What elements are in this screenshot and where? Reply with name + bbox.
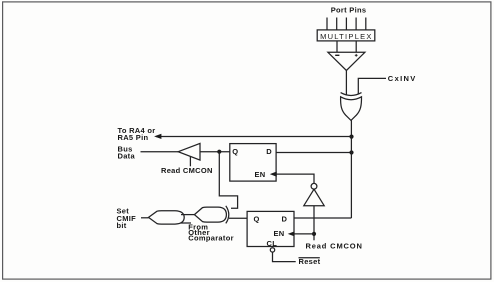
wire main vertical (350, 137, 352, 218)
wire mux output left (336, 42, 338, 53)
tri-state buffer U2 (178, 143, 200, 160)
svg-text:D: D (282, 215, 288, 224)
wire port pin 1 (326, 18, 328, 31)
svg-text:EN: EN (255, 170, 266, 179)
wire G2 to G3 (181, 214, 194, 216)
svg-text:Comparator: Comparator (188, 234, 234, 243)
wire to RA4/RA5 pin (156, 136, 352, 138)
wire bus data (141, 151, 179, 153)
wire U5 D (294, 217, 351, 219)
node J3 (349, 150, 353, 154)
xor G2 input arc (226, 206, 229, 224)
svg-text:bit: bit (117, 221, 127, 230)
wire xor output (350, 120, 352, 136)
wire U3 EN (276, 174, 314, 183)
svg-text:Read CMCON: Read CMCON (306, 241, 363, 250)
comparator C1 plus input mark (355, 54, 358, 57)
wire U3 D (276, 152, 351, 154)
svg-text:RA5 Pin: RA5 Pin (118, 133, 149, 142)
xor gate G1 (output inversion) (341, 93, 362, 96)
wire comparator output (345, 71, 347, 95)
label Reset with overline (299, 257, 320, 259)
multiplexer MULTIPLEX (317, 30, 375, 41)
wire mux output right (355, 42, 357, 53)
wire port pin 3 (345, 18, 347, 31)
wire CxINV (358, 78, 386, 94)
xor gate G2 (194, 207, 226, 222)
svg-text:Q: Q (254, 215, 260, 224)
svg-text:Read CMCON: Read CMCON (161, 166, 213, 175)
latch U5 (247, 211, 294, 246)
wire port pin 4 (355, 18, 357, 31)
wire U5 Q (229, 217, 247, 219)
wire down to xor G2 (219, 152, 237, 209)
svg-text:Data: Data (118, 151, 136, 160)
svg-text:EN: EN (274, 229, 285, 238)
arrowhead U5 EN (288, 231, 295, 236)
comparator C1 minus input mark (335, 54, 339, 56)
or gate G3 (149, 211, 185, 224)
svg-text:D: D (266, 147, 272, 156)
arrowhead to pin (154, 134, 161, 139)
svg-text:Reset: Reset (299, 257, 321, 266)
wire set cmif (141, 217, 149, 219)
svg-text:CL: CL (267, 239, 278, 248)
wire reset (273, 252, 296, 262)
svg-text:Port Pins: Port Pins (331, 6, 367, 15)
wire from other comparator (181, 222, 192, 224)
svg-text:Q: Q (232, 147, 238, 156)
latch U3 (230, 144, 276, 182)
bubble U5 CL (270, 248, 274, 252)
node J4 (312, 232, 316, 236)
wire buffer output (200, 151, 230, 153)
inverter U4 (311, 183, 317, 189)
wire port pin 2 (336, 18, 338, 31)
node J1 (349, 135, 353, 139)
svg-text:MULTIPLEX: MULTIPLEX (320, 32, 373, 41)
comparator C1 (328, 52, 365, 70)
arrowhead U3 EN (270, 172, 277, 177)
wire buffer enable (189, 157, 191, 167)
node J2 (217, 150, 221, 154)
wire inverter to EN line (313, 206, 315, 241)
wire port pin 5 (365, 18, 367, 31)
wire U5 EN (294, 233, 314, 235)
svg-text:CxINV: CxINV (388, 74, 417, 83)
